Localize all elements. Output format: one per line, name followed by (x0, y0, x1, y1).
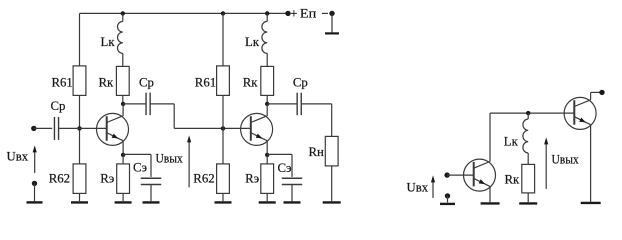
svg-text:Еп: Еп (300, 7, 316, 21)
svg-text:Cр: Cр (139, 76, 154, 90)
svg-text:R62: R62 (49, 171, 70, 185)
svg-text:Rн: Rн (309, 145, 325, 159)
svg-text:R61: R61 (52, 76, 73, 90)
svg-text:Rэ: Rэ (100, 171, 114, 185)
svg-text:Uвых: Uвых (552, 152, 580, 166)
svg-text:R61: R61 (195, 76, 216, 90)
svg-text:Rк: Rк (99, 76, 115, 90)
svg-text:Cэ: Cэ (278, 161, 292, 175)
svg-text:Cр: Cр (51, 99, 66, 113)
svg-text:Lк: Lк (245, 35, 260, 49)
svg-text:Rк: Rк (505, 173, 521, 187)
svg-text:Lк: Lк (101, 35, 116, 49)
svg-text:Cэ: Cэ (133, 161, 147, 175)
svg-text:+: + (290, 7, 297, 21)
svg-text:Rэ: Rэ (245, 171, 259, 185)
svg-text:Uвых: Uвых (156, 152, 184, 166)
svg-text:Cр: Cр (293, 76, 308, 90)
svg-text:Lк: Lк (504, 134, 519, 148)
svg-text:Uвх: Uвх (7, 150, 29, 164)
svg-text:Rк: Rк (243, 76, 259, 90)
svg-text:R62: R62 (193, 171, 214, 185)
svg-text:Uвх: Uвх (407, 180, 429, 194)
